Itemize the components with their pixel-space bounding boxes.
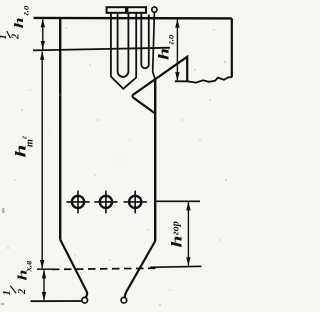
burner B2 (94, 191, 117, 214)
label h_t^g (14, 136, 36, 158)
wire burner axis line (155, 200, 200, 202)
wire hopper bottom line (31, 300, 82, 302)
svg-text:1: 1 (2, 290, 13, 295)
svg-text:2: 2 (11, 33, 22, 40)
svg-text:х.в: х.в (24, 261, 34, 273)
platen header right (127, 7, 146, 13)
label h_gor (170, 221, 186, 247)
svg-text:т: т (24, 139, 35, 147)
svg-text:h: h (11, 17, 26, 28)
svg-text:гор: гор (171, 221, 182, 235)
wire left hopper slope (60, 240, 87, 298)
dimension half h_x.v (42, 270, 46, 301)
wire mid-funnel tick (37, 268, 52, 270)
label h_g.o right (157, 34, 176, 60)
svg-text:1: 1 (0, 34, 9, 39)
svg-text:г.о: г.о (21, 5, 31, 15)
wire ceiling line (34, 17, 232, 20)
svg-text:h: h (157, 48, 173, 60)
paper background (0, 0, 237, 312)
platen inner U tube (118, 13, 129, 77)
dimension h_g.o gas window (175, 19, 179, 81)
platen outer U tube (111, 13, 136, 89)
wire furnace nose (133, 57, 188, 114)
node rear screen tube ball (152, 7, 157, 12)
svg-text:г: г (20, 136, 29, 139)
wire rear screen tube (153, 12, 156, 79)
svg-text:г.о: г.о (166, 34, 176, 44)
dimension h_gor burner height (186, 202, 190, 266)
wire right wall (154, 80, 156, 242)
wire duct right wall (231, 18, 233, 77)
burner B3 (124, 191, 147, 214)
wire mid gas-window line (33, 48, 170, 51)
wire mid-funnel dashed line (52, 268, 157, 269)
wire mid-funnel solid right line (150, 266, 202, 267)
platen right U tube (141, 13, 149, 68)
dimension h_t furnace height (40, 51, 44, 268)
paper speckles (7, 27, 226, 305)
svg-text:2: 2 (17, 288, 28, 295)
wire left wall (59, 18, 61, 240)
wire torn duct bottom edge (175, 77, 232, 82)
svg-text:h: h (170, 236, 186, 248)
platen header left (107, 7, 126, 13)
label 1/2 h_g.o (0, 5, 31, 40)
node right bottom header (121, 297, 127, 303)
node left bottom header (82, 297, 88, 303)
burner B1 (66, 191, 89, 214)
label 1/2 h_x.v (2, 261, 34, 296)
dimension half h_g.o left (41, 19, 45, 50)
wire right hopper slope (125, 241, 156, 297)
